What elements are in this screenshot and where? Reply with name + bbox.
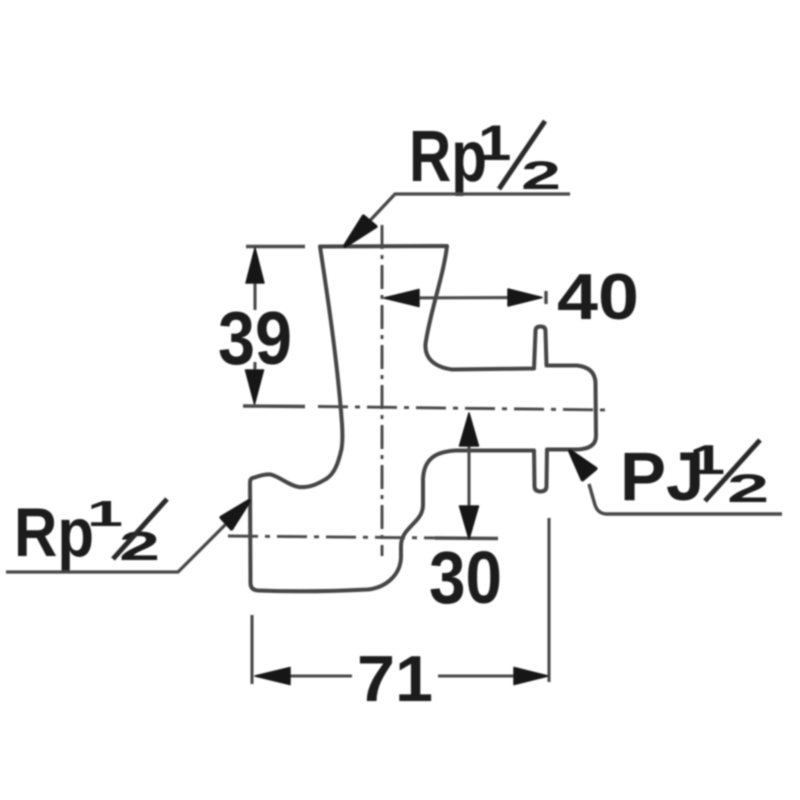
svg-text:39: 39 (218, 296, 292, 380)
svg-text:30: 30 (429, 536, 502, 619)
svg-text:2: 2 (521, 153, 561, 198)
svg-text:40: 40 (557, 260, 639, 333)
svg-text:Rp: Rp (409, 117, 487, 197)
svg-text:1: 1 (689, 436, 725, 484)
svg-text:71: 71 (357, 642, 433, 715)
svg-text:1: 1 (87, 494, 123, 534)
svg-text:Rp: Rp (14, 494, 94, 571)
svg-text:1: 1 (478, 115, 511, 171)
